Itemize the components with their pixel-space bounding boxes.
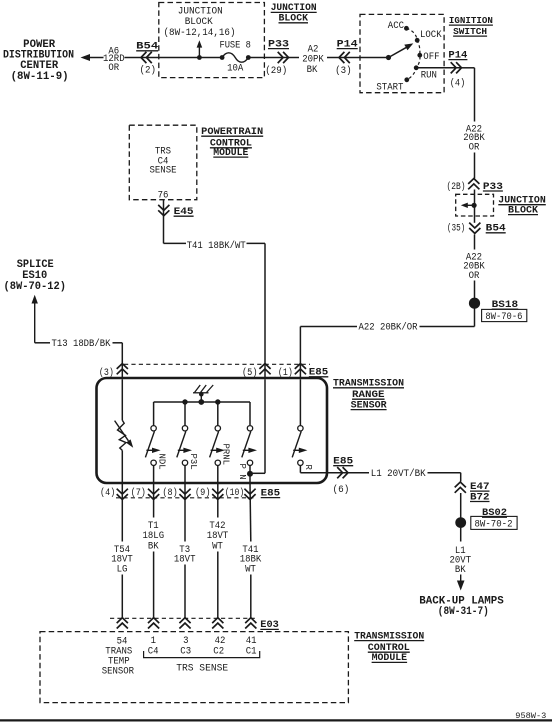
svg-text:BK: BK — [307, 65, 318, 76]
node POWER DISTRIBUTION CENTER (8W-11-9) — [3, 39, 74, 83]
wire into junction block 2 — [474, 190, 476, 195]
svg-text:E47: E47 — [470, 481, 490, 492]
powertrain control module dashed box — [129, 125, 197, 200]
wire A22 20BK/OR down — [474, 235, 476, 250]
label JUNCTION BLOCK (right) — [498, 195, 546, 216]
connector row E85 (top) dashed line — [124, 363, 310, 365]
svg-text:E85: E85 — [309, 367, 329, 378]
transmission range sensor box — [97, 378, 328, 483]
svg-text:WT: WT — [245, 564, 256, 575]
svg-text:(35): (35) — [447, 223, 465, 235]
svg-text:TRS SENSE: TRS SENSE — [176, 663, 228, 674]
svg-text:B54: B54 — [486, 223, 506, 234]
svg-text:(29): (29) — [265, 65, 287, 77]
wire down to E85 cav 3 — [121, 343, 123, 379]
connector E85 cav 10 — [225, 487, 256, 499]
pin 1 C4 — [148, 636, 159, 657]
svg-text:MODULE: MODULE — [213, 147, 248, 158]
connector E03 cav 1 — [148, 618, 159, 623]
label TRS C4 SENSE — [150, 146, 177, 176]
wire T41 18BK/WT (2) — [249, 483, 252, 542]
label A6 12RD OR — [103, 46, 125, 74]
wire down to E85 cav 1 — [299, 327, 301, 380]
svg-text:P33: P33 — [268, 38, 289, 49]
connector E03 cav 41 — [245, 618, 256, 623]
thermistor (trans temp sensor) — [115, 379, 134, 483]
wire T1 18LG/BK — [153, 483, 155, 518]
label TRANSMISSION RANGE SENSOR — [333, 378, 404, 411]
contact ACC — [388, 21, 409, 32]
connector row E85 (bottom) dashed line — [116, 497, 256, 499]
connector row E03 dashed line — [110, 617, 256, 619]
svg-text:P14: P14 — [337, 38, 358, 49]
svg-text:OFF: OFF — [423, 52, 439, 63]
label A22 20BK OR (2) — [463, 253, 485, 282]
pin 42 C2 — [213, 636, 225, 657]
svg-text:START: START — [376, 82, 403, 93]
wire to P33 chevron — [474, 153, 476, 179]
wire T41 18BK/WT — [163, 217, 165, 244]
TRS SENSE bracket — [144, 651, 260, 658]
connector P14 (3) — [335, 38, 358, 77]
svg-text:(8W-11-9): (8W-11-9) — [11, 71, 69, 83]
node SPLICE ES10 (8W-70-12) — [4, 259, 67, 293]
svg-text:18VT: 18VT — [174, 555, 196, 566]
connector P33 (2B) — [447, 179, 504, 193]
ignition switch contact arc (dashed) — [406, 28, 420, 80]
svg-text:B72: B72 — [470, 491, 490, 502]
label L1 20VT BK — [450, 546, 472, 576]
svg-text:C2: C2 — [213, 646, 224, 657]
svg-text:(10): (10) — [225, 487, 245, 499]
page border line — [0, 719, 552, 721]
svg-text:BLOCK: BLOCK — [185, 17, 213, 28]
svg-text:(9): (9) — [195, 487, 211, 499]
svg-text:SENSE: SENSE — [150, 165, 177, 176]
svg-text:BLOCK: BLOCK — [279, 13, 309, 24]
wire T3 18VT — [184, 483, 186, 542]
switch NDL — [145, 426, 167, 483]
svg-text:E85: E85 — [333, 456, 353, 467]
connector E85 cav 8 — [162, 487, 190, 499]
splice BS18 — [469, 298, 527, 324]
wire A6 12RD/OR — [90, 57, 104, 59]
connector E85 (6) — [333, 456, 354, 496]
svg-text:MODULE: MODULE — [372, 652, 408, 663]
svg-text:20PK: 20PK — [302, 55, 324, 66]
connector E03 cav 42 — [212, 618, 223, 623]
wire E85 cav5 inside box — [252, 379, 265, 473]
contact START — [376, 77, 409, 93]
svg-text:RUN: RUN — [421, 71, 437, 82]
svg-text:(3): (3) — [335, 65, 352, 77]
svg-text:(4): (4) — [100, 487, 115, 499]
wire down to E85 cav 5 — [264, 243, 266, 379]
contact OFF — [417, 52, 439, 63]
svg-text:BK: BK — [455, 565, 466, 576]
ignition switch dashed box — [360, 14, 444, 92]
label A22 20BK OR — [463, 124, 485, 153]
node junction dot with left arrow — [461, 203, 477, 208]
arrow to back-up lamps — [457, 575, 465, 591]
splice BS02 — [455, 507, 517, 531]
wire A22 20BK/OR horizontal — [420, 326, 475, 328]
svg-text:8W-70-6: 8W-70-6 — [485, 312, 522, 323]
svg-text:TRANSMISSION: TRANSMISSION — [354, 630, 424, 641]
junction block 2 dashed box — [456, 194, 494, 216]
svg-text:JUNCTION: JUNCTION — [178, 6, 223, 17]
wire A2 20PK/BK — [327, 57, 360, 59]
svg-text:C1: C1 — [246, 646, 257, 657]
label IGNITION SWITCH — [449, 15, 493, 37]
connector B54 (2) — [136, 41, 158, 77]
svg-text:POWERTRAIN: POWERTRAIN — [201, 126, 263, 137]
svg-text:OR: OR — [469, 142, 480, 153]
svg-text:E85: E85 — [261, 487, 281, 498]
svg-text:R: R — [303, 465, 314, 471]
svg-text:E45: E45 — [174, 206, 194, 217]
svg-text:(2): (2) — [140, 65, 157, 77]
svg-text:BK: BK — [148, 542, 159, 553]
svg-text:(2B): (2B) — [447, 181, 466, 193]
svg-text:ACC: ACC — [388, 21, 404, 32]
connector E85 cav 9 — [195, 487, 223, 499]
connector E45 — [158, 200, 194, 217]
svg-text:18LG: 18LG — [143, 531, 165, 542]
wire through junction block 2 — [474, 194, 476, 223]
connector E85 cav 7 — [131, 487, 160, 499]
label JUNCTION BLOCK (8W-12,14,16) — [164, 6, 236, 39]
connector E47 B72 — [455, 481, 490, 502]
connector E03 cav 54 — [117, 618, 128, 623]
svg-text:SWITCH: SWITCH — [453, 26, 487, 37]
wire T54 18VT/LG — [121, 483, 123, 542]
switch PRNL — [210, 426, 232, 483]
svg-text:C3: C3 — [180, 646, 191, 657]
svg-text:(8W-12,14,16): (8W-12,14,16) — [164, 27, 236, 39]
wire to A22 vertical — [462, 67, 475, 69]
contact RUN — [414, 65, 437, 81]
connector E85 cav 1 — [278, 364, 306, 379]
wire RUN to P14 — [416, 67, 461, 69]
node junction dot with up arrow — [197, 40, 203, 60]
switch P3L — [177, 426, 199, 483]
connector E85 cav 4 — [100, 487, 128, 499]
svg-text:OR: OR — [469, 271, 480, 282]
svg-text:PRNL: PRNL — [221, 444, 232, 466]
switch R — [292, 379, 332, 472]
ignition switch wiper arm — [386, 43, 413, 60]
pin 41 C1 — [246, 636, 257, 657]
node bus junction dots — [182, 399, 220, 405]
wire to splice BS02 — [460, 493, 462, 523]
label JUNCTION BLOCK (bold) — [271, 2, 317, 23]
arrow up to splice ES10 — [32, 295, 38, 343]
svg-text:BLOCK: BLOCK — [508, 204, 538, 215]
connector E85 cav 3 — [99, 364, 128, 379]
pin 54 TRANS TEMP SENSOR — [102, 637, 134, 678]
contact LOCK — [415, 30, 442, 43]
svg-text:8W-70-2: 8W-70-2 — [475, 520, 513, 531]
svg-text:B54: B54 — [136, 41, 158, 52]
transmission control module dashed box — [40, 632, 348, 703]
wire fuse to P33 — [248, 57, 299, 59]
svg-text:IGNITION: IGNITION — [449, 15, 493, 26]
svg-text:P N: P N — [237, 464, 248, 480]
svg-text:FUSE 8: FUSE 8 — [219, 41, 251, 52]
fuse F8 10A — [219, 41, 251, 75]
svg-text:NDL: NDL — [157, 454, 168, 470]
arrow to power distribution center — [81, 54, 91, 61]
connector B54 (35) — [447, 223, 506, 235]
svg-text:(8W-31-7): (8W-31-7) — [438, 606, 489, 618]
svg-text:LG: LG — [117, 564, 128, 575]
label A2 20PK BK — [302, 45, 324, 77]
svg-text:SENSOR: SENSOR — [351, 399, 387, 410]
svg-text:P3L: P3L — [188, 454, 199, 470]
svg-text:WT: WT — [212, 542, 223, 553]
svg-text:RANGE: RANGE — [352, 389, 385, 400]
wire L1 20VT BK down — [460, 528, 462, 542]
wire T42 18VT/WT — [217, 483, 219, 518]
wire L1 20VT/BK — [333, 472, 370, 474]
svg-text:(6): (6) — [333, 484, 350, 496]
svg-text:(8): (8) — [162, 487, 177, 499]
svg-text:E03: E03 — [260, 619, 279, 630]
connector E85 cav 5 — [242, 364, 271, 379]
svg-text:TRANSMISSION: TRANSMISSION — [333, 378, 404, 389]
wire T13 18DB/BK — [35, 342, 50, 344]
svg-text:(7): (7) — [131, 487, 146, 499]
label POWERTRAIN CONTROL MODULE — [201, 126, 263, 158]
svg-text:10A: 10A — [227, 64, 243, 75]
ground bus wire — [154, 402, 250, 426]
connector E03 cav 3 — [179, 618, 190, 623]
connector P33 (29) — [265, 38, 289, 77]
svg-text:A22 20BK/OR: A22 20BK/OR — [359, 322, 418, 334]
svg-text:OR: OR — [108, 63, 119, 74]
connector P14 (4) — [448, 49, 467, 89]
svg-text:P33: P33 — [483, 181, 503, 192]
svg-text:(4): (4) — [450, 78, 466, 90]
svg-text:(8W-70-12): (8W-70-12) — [4, 281, 67, 293]
wire inside junction block — [159, 57, 222, 59]
junction block 1 dashed box — [159, 3, 265, 78]
svg-text:P14: P14 — [448, 49, 467, 60]
svg-text:BS18: BS18 — [492, 299, 519, 310]
label TRANSMISSION CONTROL MODULE — [354, 630, 424, 663]
svg-text:18VT: 18VT — [207, 531, 229, 542]
svg-text:JUNCTION: JUNCTION — [271, 2, 317, 13]
svg-text:L1 20VT/BK: L1 20VT/BK — [371, 468, 426, 480]
svg-text:LOCK: LOCK — [420, 30, 442, 41]
svg-text:SENSOR: SENSOR — [102, 667, 134, 678]
node BACK-UP LAMPS (8W-31-7) — [419, 595, 504, 618]
svg-text:C4: C4 — [148, 646, 159, 657]
wire into ignition switch — [360, 57, 389, 59]
pin 3 C3 — [180, 636, 191, 657]
switch P N — [237, 426, 257, 483]
svg-text:T13 18DB/BK: T13 18DB/BK — [52, 338, 111, 350]
svg-text:T41 18BK/WT: T41 18BK/WT — [187, 240, 246, 252]
ground symbol — [193, 385, 213, 402]
